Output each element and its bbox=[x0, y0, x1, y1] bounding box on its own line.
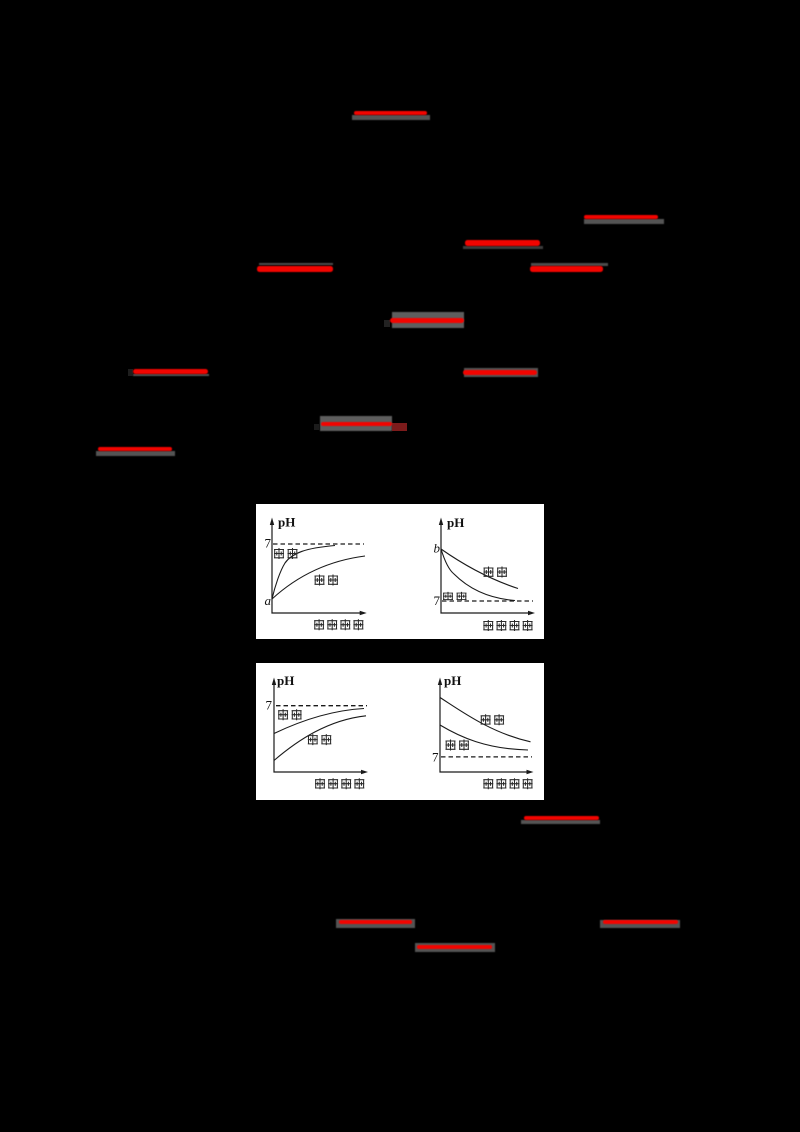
svg-text:7: 7 bbox=[266, 697, 273, 712]
svg-text:7: 7 bbox=[265, 536, 272, 551]
svg-text:pH: pH bbox=[278, 515, 295, 530]
svg-text:pH: pH bbox=[277, 673, 294, 688]
svg-text:b: b bbox=[434, 541, 441, 556]
svg-text:a: a bbox=[265, 593, 272, 608]
svg-text:7: 7 bbox=[432, 749, 439, 764]
svg-text:pH: pH bbox=[447, 515, 464, 530]
svg-text:7: 7 bbox=[434, 593, 441, 608]
svg-text:pH: pH bbox=[444, 673, 461, 688]
